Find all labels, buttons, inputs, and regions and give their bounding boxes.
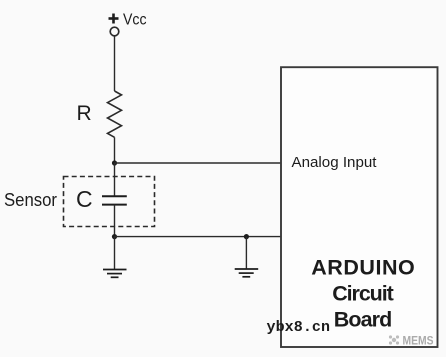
wire analog input (node A to board) xyxy=(115,162,282,164)
capacitor C bottom plate xyxy=(102,204,127,206)
wire resistor bottom to node A xyxy=(114,137,116,163)
wire node B to left ground xyxy=(114,237,116,270)
node A junction dot xyxy=(112,160,117,165)
sensor dashed box xyxy=(64,177,155,227)
ground middle xyxy=(235,269,259,277)
ground left xyxy=(103,270,127,278)
power +Vcc plus sign xyxy=(109,14,119,24)
wire node A to capacitor top plate xyxy=(114,163,116,196)
svg-text:MEMS: MEMS xyxy=(403,333,434,347)
watermark MEMS logo flower xyxy=(389,335,399,344)
svg-text:Sensor: Sensor xyxy=(4,190,57,210)
wire bottom horizontal (node B to board) xyxy=(115,236,282,238)
svg-text:ARDUINO: ARDUINO xyxy=(311,255,415,279)
svg-text:Board: Board xyxy=(334,307,393,331)
wire node C to middle ground xyxy=(245,237,247,269)
capacitor C top plate xyxy=(102,195,127,197)
svg-text:R: R xyxy=(77,102,92,125)
svg-text:Analog Input: Analog Input xyxy=(292,154,378,171)
resistor R xyxy=(108,91,122,137)
svg-text:Circuit: Circuit xyxy=(332,281,394,305)
arduino circuit board box xyxy=(281,67,438,347)
wire Vcc terminal to resistor top xyxy=(114,36,116,91)
Vcc terminal circle xyxy=(110,27,119,36)
node C junction dot xyxy=(244,234,249,239)
svg-text:C: C xyxy=(76,186,93,212)
svg-text:ybx8.cn: ybx8.cn xyxy=(267,319,331,336)
wire capacitor bottom plate to node B xyxy=(114,205,116,237)
svg-text:Vcc: Vcc xyxy=(123,12,147,29)
node B junction dot xyxy=(112,234,117,239)
